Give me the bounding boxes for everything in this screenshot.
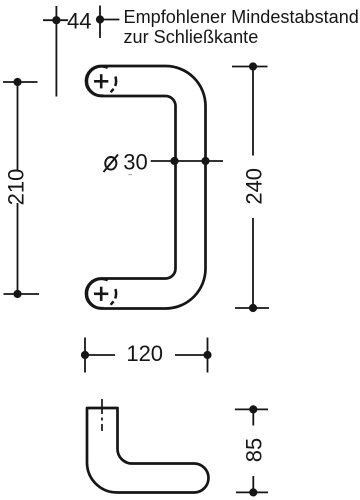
svg-text:Empfohlener Mindestabstand: Empfohlener Mindestabstand [124,7,359,27]
svg-text:120: 120 [126,341,163,366]
svg-text:85: 85 [242,438,267,462]
svg-text:zur Schließkante: zur Schließkante [124,27,259,47]
svg-text:240: 240 [242,168,267,205]
svg-text:30: 30 [123,150,147,175]
svg-text:210: 210 [3,169,28,206]
svg-text:44: 44 [67,9,91,34]
